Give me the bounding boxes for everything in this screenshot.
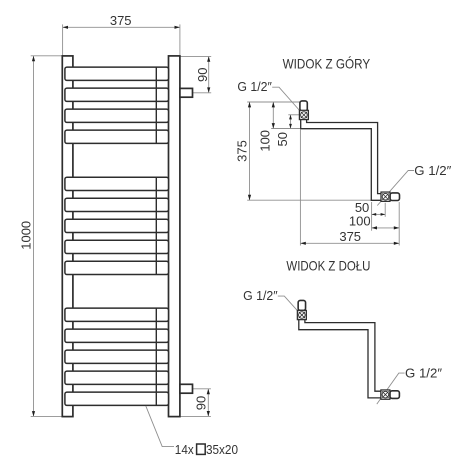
ext line 90 bottom a — [193, 388, 211, 390]
dim line 1000 — [33, 56, 35, 417]
rung group line 1 — [155, 67, 157, 143]
arrow 90 bottom b — [207, 411, 210, 416]
arrow 50 TV-bot b — [381, 213, 386, 216]
rung 8 — [65, 240, 169, 253]
dim line 375 TV-bot — [300, 242, 399, 244]
ext TV vert left fitting — [299, 130, 301, 246]
arrow 100 TV-bot a — [372, 226, 377, 229]
svg-text:G 1/2″: G 1/2″ — [414, 163, 451, 178]
dim line 50 TV-bot — [372, 213, 386, 215]
pipe TV — [301, 118, 382, 201]
ext TV top — [247, 101, 300, 103]
rung 10 — [65, 308, 169, 321]
rung group line 3 — [155, 308, 157, 405]
rung 11 — [65, 329, 169, 342]
leader 14x — [146, 406, 174, 447]
leader G12 TV-BR — [377, 171, 414, 206]
ext TV z-bottom — [247, 199, 371, 201]
valve BV-BR — [381, 390, 390, 399]
ext TV vert cap-right — [398, 202, 400, 246]
svg-text:WIDOK Z GÓRY: WIDOK Z GÓRY — [283, 55, 371, 71]
ext TV pipe bottom — [271, 128, 300, 130]
arrow 90 bottom a — [207, 389, 210, 394]
svg-text:50: 50 — [275, 132, 290, 146]
left collector tube — [62, 56, 73, 417]
rung 9 — [65, 261, 169, 274]
ext line 90 top b — [193, 92, 211, 94]
arrow 1000 bottom — [32, 411, 35, 416]
ext TV vert pipe-left — [371, 202, 373, 231]
ext line 1000 top — [31, 55, 62, 57]
rung 12 — [65, 350, 169, 363]
svg-text:90: 90 — [195, 68, 210, 82]
rung 1 — [65, 67, 169, 80]
svg-text:100: 100 — [349, 213, 371, 228]
leader G12 BV-BR — [377, 373, 405, 404]
dim line 50 TV-left — [290, 115, 292, 129]
svg-text:375: 375 — [110, 13, 132, 28]
arrow 50 TV-left b — [289, 124, 292, 129]
arrow 375 right — [175, 26, 180, 29]
dim line 375 top — [63, 26, 180, 28]
svg-text:G 1/2″: G 1/2″ — [243, 288, 278, 303]
svg-text:1000: 1000 — [19, 221, 34, 250]
leader G12 BV-TL — [278, 296, 298, 311]
svg-text:90: 90 — [194, 396, 209, 410]
arrow 100 TV-left b — [272, 123, 275, 128]
end cap BV-TL — [298, 300, 305, 310]
arrow 375 TV-bot b — [394, 242, 399, 245]
dim line 375 TV-left — [249, 102, 251, 200]
svg-text:100: 100 — [257, 130, 272, 152]
label square symbol — [197, 444, 206, 454]
arrow 375 TV-left b — [248, 195, 251, 200]
leader G12 TV-TL — [272, 87, 299, 110]
ext line 90 top a — [180, 55, 211, 57]
end cap TV-BR — [390, 193, 399, 201]
svg-text:G 1/2″: G 1/2″ — [405, 366, 442, 381]
rung 4 — [65, 130, 169, 143]
pipe BV — [299, 318, 381, 398]
dim line 100 TV-left — [272, 102, 274, 129]
svg-text:WIDOK Z DOŁU: WIDOK Z DOŁU — [286, 258, 370, 274]
right collector tube — [169, 56, 180, 417]
connection stub top — [180, 88, 193, 97]
end cap BV-BR — [390, 391, 399, 399]
arrow 375 TV-bot a — [300, 242, 305, 245]
svg-text:375: 375 — [234, 140, 249, 162]
arrow 1000 top — [32, 56, 35, 61]
arrow 90 top b — [207, 87, 210, 92]
ext TV vert valve-center — [384, 203, 386, 217]
end cap TV-TL — [300, 101, 307, 111]
arrow 90 top a — [207, 56, 210, 61]
arrow 375 left — [63, 26, 68, 29]
arrow 50 TV-left a — [289, 115, 292, 120]
rung 5 — [65, 177, 169, 190]
ext line 375 right — [179, 24, 181, 55]
rung 6 — [65, 198, 169, 211]
rung 3 — [65, 109, 169, 122]
valve BV-TL — [297, 310, 306, 319]
svg-text:G 1/2″: G 1/2″ — [237, 79, 272, 94]
ext line 1000 bottom — [31, 415, 62, 417]
arrow 100 TV-left a — [272, 102, 275, 107]
rung 13 — [65, 371, 169, 384]
rung group line 2 — [155, 177, 157, 274]
dim line 90 bottom — [207, 389, 209, 417]
ext line 90 bottom b — [180, 415, 211, 417]
valve TV-BR — [381, 192, 390, 201]
valve TV-TL — [299, 110, 308, 119]
svg-text:14x: 14x — [175, 443, 195, 457]
arrow 50 TV-bot a — [372, 213, 377, 216]
svg-text:375: 375 — [339, 229, 361, 244]
arrow 375 TV-left a — [248, 102, 251, 107]
rung 14 — [65, 392, 169, 405]
dim line 100 TV-bot — [372, 227, 400, 229]
dim line 90 top — [208, 56, 210, 92]
rung 2 — [65, 88, 169, 101]
ext TV valve center — [288, 114, 299, 116]
ext line 375 left — [62, 24, 64, 55]
svg-text:35x20: 35x20 — [206, 443, 238, 457]
rung 7 — [65, 219, 169, 232]
connection stub bottom — [180, 384, 193, 393]
arrow 100 TV-bot b — [394, 226, 399, 229]
